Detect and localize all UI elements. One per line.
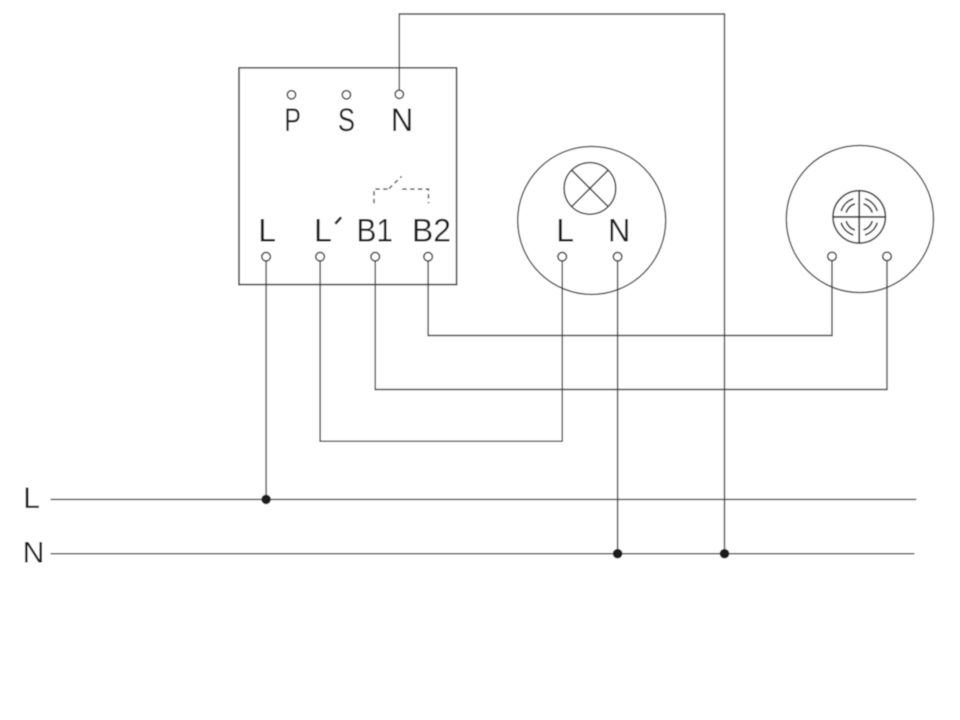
wire B1-to-sensor-right	[375, 261, 887, 390]
svg-text:N: N	[23, 537, 45, 570]
terminal B2 (box)	[424, 252, 433, 261]
sensor symbol arcs	[841, 199, 877, 235]
lamp E1 outer circle	[518, 146, 666, 294]
lamp symbol circle	[564, 163, 616, 215]
wire lamp-N down to N bus	[617, 261, 619, 554]
terminal B1 (box)	[371, 252, 380, 261]
terminal 1 (sensor)	[828, 252, 837, 261]
svg-text:B2: B2	[412, 213, 451, 249]
junction lamp-N on N bus	[613, 549, 623, 559]
sensor U2 outer circle	[786, 145, 933, 292]
terminal L (box)	[262, 252, 271, 261]
wire L: box terminal L down to L bus	[265, 261, 267, 499]
bus line L	[51, 498, 917, 500]
lamp symbol X	[572, 170, 608, 206]
terminal L' (box)	[316, 252, 325, 261]
svg-text:L: L	[314, 213, 332, 249]
relay contact (dashed) inside box	[374, 176, 429, 203]
wire B2-to-sensor-left	[428, 261, 832, 336]
terminal N (box)	[395, 90, 403, 98]
svg-text:B1: B1	[356, 213, 393, 249]
terminal 2 (sensor)	[883, 252, 892, 261]
junction on L bus	[261, 495, 271, 505]
svg-text:L: L	[23, 482, 40, 515]
sensor symbol circle	[833, 191, 885, 243]
terminal P	[287, 91, 295, 99]
terminal L (lamp)	[558, 252, 567, 261]
svg-text:S: S	[338, 102, 355, 138]
terminal S	[342, 91, 350, 99]
sensor symbol cross	[833, 191, 885, 243]
svg-text:P: P	[284, 102, 301, 138]
svg-text:N: N	[391, 102, 413, 138]
svg-text:L: L	[556, 213, 574, 249]
wire N-top: box terminal N up over to N bus	[399, 14, 724, 554]
bus line N	[51, 553, 915, 555]
svg-text:N: N	[608, 213, 630, 249]
wire L'-to-lamp-L	[320, 261, 562, 441]
svg-text:L: L	[258, 213, 276, 249]
device box U1	[239, 68, 457, 285]
junction N-wire on N bus	[720, 549, 730, 559]
prime mark of L'	[335, 217, 341, 224]
terminal N (lamp)	[613, 252, 622, 261]
